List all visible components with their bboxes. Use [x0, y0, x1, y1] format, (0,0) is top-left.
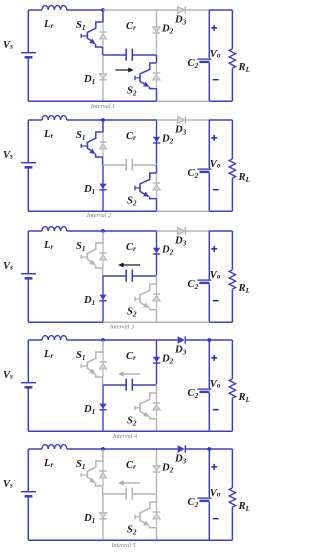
capacitor C2: [197, 120, 211, 211]
wire bottom rail Vs to D1: [28, 539, 103, 541]
plus polarity mark: [211, 355, 217, 361]
wire D3 to output node: [185, 448, 209, 450]
svg-text:Lr: Lr: [43, 458, 53, 469]
resistor RL: [229, 449, 235, 540]
resistor RL: [229, 231, 235, 322]
wire Cr to node C: [132, 275, 156, 277]
switch S1 (IGBT): [81, 231, 103, 276]
diode D2: [153, 231, 160, 275]
wire top rail output node to RL: [209, 9, 232, 11]
svg-text:D1: D1: [83, 184, 95, 196]
wire bottom rail S2 to C2: [157, 100, 210, 102]
node A junction: [101, 229, 105, 233]
diode D3: [178, 116, 185, 123]
svg-text:S2: S2: [127, 196, 137, 208]
minus polarity mark: [213, 79, 219, 81]
plus polarity mark: [211, 25, 217, 31]
wire bottom rail Vs to D1: [28, 100, 103, 102]
diode D3: [178, 445, 185, 452]
wire bottom rail C2 to RL: [209, 539, 232, 541]
svg-text:S2: S2: [127, 525, 137, 537]
switch S1 (IGBT): [81, 10, 103, 55]
wire bottom rail C2 to RL: [209, 210, 232, 212]
switch S1 (IGBT): [81, 120, 103, 165]
svg-text:S1: S1: [76, 130, 86, 142]
wire Cr to node C: [132, 384, 156, 386]
capacitor C2: [197, 231, 211, 322]
svg-text:Interval 2: Interval 2: [86, 212, 111, 219]
wire top rail from Vs to Lr: [28, 119, 42, 121]
svg-text:D2: D2: [161, 24, 174, 36]
plus polarity mark: [211, 135, 217, 141]
wire top rail node A to D2 branch: [103, 9, 157, 11]
wire top rail node A to D2 branch: [103, 119, 157, 121]
diode D3: [178, 227, 185, 234]
capacitor Cr: [126, 49, 132, 61]
wire Cr to node C: [132, 493, 156, 495]
wire bottom rail Vs to D1: [28, 321, 103, 323]
diode D2: [153, 340, 160, 384]
svg-text:Vo: Vo: [210, 159, 221, 170]
svg-text:Vs: Vs: [3, 370, 13, 381]
capacitor C2: [197, 10, 211, 101]
wire top rail D2 branch to D3: [157, 448, 178, 450]
svg-text:Lr: Lr: [43, 129, 53, 140]
wire bottom rail Vs to D1: [28, 430, 103, 432]
svg-text:S1: S1: [76, 350, 86, 362]
diode D3: [178, 336, 185, 343]
anti-parallel diode of S2: [153, 63, 160, 87]
switch S1 (IGBT): [81, 340, 103, 385]
wire bottom rail D1 to S2: [103, 210, 157, 212]
wire bottom rail S2 to C2: [157, 321, 210, 323]
svg-text:Lr: Lr: [43, 19, 53, 30]
wire top rail output node to RL: [209, 448, 232, 450]
anti-parallel diode of S1: [99, 352, 106, 377]
plus polarity mark: [211, 246, 217, 252]
wire node B to Cr: [103, 54, 126, 56]
wire D3 to output node: [185, 9, 209, 11]
voltage source Vs: [21, 231, 36, 322]
wire bottom rail D1 to S2: [103, 539, 157, 541]
wire bottom rail D1 to S2: [103, 430, 157, 432]
switch S2 (IGBT): [135, 165, 157, 211]
wire top rail output node to RL: [209, 339, 232, 341]
svg-text:Vo: Vo: [210, 379, 221, 390]
svg-text:S1: S1: [76, 20, 86, 32]
svg-text:C2: C2: [188, 497, 199, 509]
current direction arrow: [122, 373, 140, 375]
diode D2: [153, 10, 160, 54]
svg-text:Cr: Cr: [126, 131, 136, 142]
svg-text:Vs: Vs: [3, 479, 13, 490]
wire bottom rail S2 to C2: [157, 539, 210, 541]
wire top rail from Lr to node A: [67, 230, 103, 232]
svg-text:Interval 4: Interval 4: [112, 433, 137, 440]
capacitor C2: [197, 449, 211, 540]
current direction arrow: [122, 482, 140, 484]
svg-text:Vs: Vs: [3, 150, 13, 161]
plus polarity mark: [211, 464, 217, 470]
svg-text:Vs: Vs: [3, 40, 13, 51]
svg-text:D1: D1: [83, 74, 95, 86]
anti-parallel diode of S2: [153, 502, 160, 526]
wire bottom rail C2 to RL: [209, 430, 232, 432]
anti-parallel diode of S1: [99, 461, 106, 486]
wire top rail from Lr to node A: [67, 119, 103, 121]
inductor Lr: [42, 445, 67, 449]
resistor RL: [229, 10, 235, 101]
svg-text:D2: D2: [161, 245, 174, 257]
voltage source Vs: [21, 10, 36, 101]
current direction arrow: [122, 264, 140, 266]
svg-text:D3: D3: [174, 125, 187, 137]
inductor Lr: [42, 6, 67, 10]
svg-text:Interval 3: Interval 3: [109, 324, 134, 331]
svg-text:Interval 5: Interval 5: [110, 542, 135, 549]
capacitor Cr: [126, 270, 132, 282]
current direction arrow: [115, 69, 129, 71]
anti-parallel diode of S1: [99, 132, 106, 157]
resistor RL: [229, 340, 235, 431]
wire D3 to output node: [185, 339, 209, 341]
svg-text:Interval 1: Interval 1: [90, 103, 115, 110]
wire top rail D2 branch to D3: [157, 9, 178, 11]
svg-text:Cr: Cr: [126, 460, 136, 471]
svg-text:Lr: Lr: [43, 349, 53, 360]
switch S2 (IGBT): [135, 385, 157, 431]
voltage source Vs: [21, 120, 36, 211]
wire top rail D2 branch to D3: [157, 119, 178, 121]
wire top rail from Vs to Lr: [28, 448, 42, 450]
wire top rail from Lr to node A: [67, 339, 103, 341]
svg-text:D3: D3: [174, 15, 187, 27]
svg-text:RL: RL: [238, 172, 251, 184]
wire top rail from Vs to Lr: [28, 230, 42, 232]
minus polarity mark: [213, 518, 219, 520]
svg-text:D3: D3: [174, 236, 187, 248]
wire Cr to node C: [132, 164, 156, 166]
wire node B to Cr: [103, 384, 126, 386]
diode D1: [99, 494, 106, 540]
voltage source Vs: [21, 340, 36, 431]
capacitor Cr: [126, 488, 132, 500]
wire top rail from Vs to Lr: [28, 9, 42, 11]
svg-text:Vo: Vo: [210, 49, 221, 60]
anti-parallel diode of S1: [99, 243, 106, 268]
switch S2 (IGBT): [135, 276, 157, 322]
svg-text:RL: RL: [238, 501, 251, 513]
switch S2 (IGBT): [135, 494, 157, 540]
wire top rail from Lr to node A: [67, 9, 103, 11]
inductor Lr: [42, 336, 67, 340]
svg-text:D2: D2: [161, 463, 174, 475]
svg-text:D3: D3: [174, 345, 187, 357]
wire bottom rail Vs to D1: [28, 210, 103, 212]
wire bottom rail C2 to RL: [209, 321, 232, 323]
node A junction: [101, 447, 105, 451]
diode D1: [99, 165, 106, 211]
inductor Lr: [42, 227, 67, 231]
switch S2 (IGBT): [135, 55, 157, 101]
svg-text:D3: D3: [174, 454, 187, 466]
wire bottom rail C2 to RL: [209, 100, 232, 102]
output node junction: [207, 447, 211, 451]
wire top rail node A to D2 branch: [103, 339, 157, 341]
svg-text:Cr: Cr: [126, 242, 136, 253]
wire top rail output node to RL: [209, 119, 232, 121]
svg-text:S2: S2: [127, 416, 137, 428]
minus polarity mark: [213, 300, 219, 302]
wire top rail D2 branch to D3: [157, 339, 178, 341]
capacitor Cr: [126, 379, 132, 391]
wire bottom rail D1 to S2: [103, 100, 157, 102]
node A junction: [101, 338, 105, 342]
wire D3 to output node: [185, 119, 209, 121]
anti-parallel diode of S2: [153, 393, 160, 417]
capacitor C2: [197, 340, 211, 431]
wire node B to Cr: [103, 164, 126, 166]
wire D3 to output node: [185, 230, 209, 232]
wire bottom rail D1 to S2: [103, 321, 157, 323]
diode D1: [99, 55, 106, 101]
wire top rail from Lr to node A: [67, 448, 103, 450]
node A junction: [101, 8, 105, 12]
switch S1 (IGBT): [81, 449, 103, 494]
wire top rail output node to RL: [209, 230, 232, 232]
svg-text:D2: D2: [161, 134, 174, 146]
inductor Lr: [42, 116, 67, 120]
svg-text:C2: C2: [188, 58, 199, 70]
diode D3: [178, 6, 185, 13]
node A junction: [101, 118, 105, 122]
svg-text:D1: D1: [83, 404, 95, 416]
svg-text:Lr: Lr: [43, 240, 53, 251]
wire node B to Cr: [103, 493, 126, 495]
wire top rail D2 branch to D3: [157, 230, 178, 232]
svg-text:S2: S2: [127, 86, 137, 98]
anti-parallel diode of S2: [153, 173, 160, 197]
output node junction: [207, 338, 211, 342]
svg-text:Vo: Vo: [210, 270, 221, 281]
voltage source Vs: [21, 449, 36, 540]
svg-text:S1: S1: [76, 241, 86, 253]
minus polarity mark: [213, 409, 219, 411]
svg-text:Vs: Vs: [3, 261, 13, 272]
wire bottom rail S2 to C2: [157, 210, 210, 212]
capacitor Cr: [126, 159, 132, 171]
svg-text:Cr: Cr: [126, 351, 136, 362]
minus polarity mark: [213, 189, 219, 191]
wire bottom rail S2 to C2: [157, 430, 210, 432]
wire top rail node A to D2 branch: [103, 230, 157, 232]
svg-text:RL: RL: [238, 62, 251, 74]
svg-text:D1: D1: [83, 295, 95, 307]
wire top rail node A to D2 branch: [103, 448, 157, 450]
svg-text:C2: C2: [188, 388, 199, 400]
anti-parallel diode of S1: [99, 22, 106, 47]
wire node B to Cr: [103, 275, 126, 277]
diode D1: [99, 276, 106, 322]
resistor RL: [229, 120, 235, 211]
diode D1: [99, 385, 106, 431]
anti-parallel diode of S2: [153, 284, 160, 308]
diode D2: [153, 120, 160, 164]
svg-text:Vo: Vo: [210, 488, 221, 499]
svg-text:RL: RL: [238, 283, 251, 295]
diode D2: [153, 449, 160, 493]
wire Cr to node C: [132, 54, 156, 56]
svg-text:D2: D2: [161, 354, 174, 366]
wire top rail from Vs to Lr: [28, 339, 42, 341]
svg-text:S1: S1: [76, 459, 86, 471]
svg-text:C2: C2: [188, 168, 199, 180]
svg-text:D1: D1: [83, 513, 95, 525]
svg-text:C2: C2: [188, 279, 199, 291]
svg-text:S2: S2: [127, 307, 137, 319]
svg-text:RL: RL: [238, 392, 251, 404]
svg-text:Cr: Cr: [126, 21, 136, 32]
